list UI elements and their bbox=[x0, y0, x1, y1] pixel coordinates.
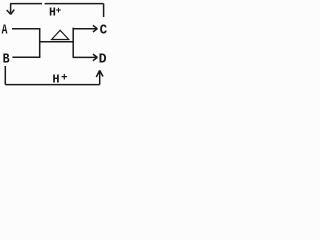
svg-text:+: + bbox=[56, 5, 62, 16]
arrow to C bbox=[73, 25, 97, 32]
heat symbol triangle bbox=[52, 30, 69, 39]
svg-text:D: D bbox=[99, 52, 107, 68]
arrowhead up at D bbox=[96, 70, 103, 77]
wire bottom feedback B to D bbox=[5, 84, 99, 86]
wire from B bbox=[12, 56, 40, 58]
wire top-left vertical drop to A bbox=[10, 4, 12, 14]
svg-text:H: H bbox=[52, 73, 59, 87]
wire bottom-right vertical up to D bbox=[99, 71, 101, 85]
wire top feedback line C to A, right segment bbox=[45, 3, 104, 5]
wire from A bbox=[12, 28, 40, 30]
wire merge vertical A+B bbox=[39, 28, 41, 58]
wire split vertical C/D bbox=[72, 28, 74, 58]
svg-text:B: B bbox=[3, 52, 10, 68]
wire down from B bbox=[4, 66, 6, 85]
svg-text:+: + bbox=[61, 73, 68, 85]
arrow to D bbox=[73, 54, 97, 61]
svg-text:A: A bbox=[2, 22, 8, 38]
wire top-right vertical from C bbox=[103, 4, 105, 17]
wire top feedback line C to A, left segment bbox=[10, 3, 42, 5]
svg-text:C: C bbox=[100, 23, 108, 39]
arrowhead down at A bbox=[7, 10, 15, 15]
wire to heat stage bbox=[40, 41, 74, 43]
